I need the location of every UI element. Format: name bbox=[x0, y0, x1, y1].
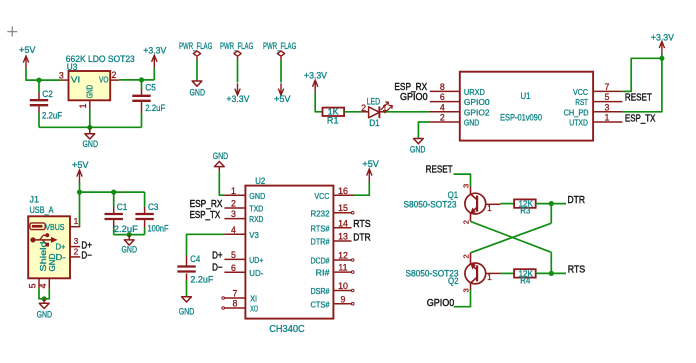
U2 pin 8 (XO) bbox=[222, 307, 225, 310]
U1 pin 5 (RST) bbox=[593, 101, 622, 103]
svg-text:V3: V3 bbox=[249, 230, 259, 240]
wire Q2 collector to GPIO0 bbox=[454, 290, 471, 307]
wire R4 to RTS bbox=[536, 272, 566, 274]
svg-text:USB_A: USB_A bbox=[30, 205, 54, 215]
J1 pin 3 (D+) bbox=[70, 246, 80, 248]
svg-text:11: 11 bbox=[338, 263, 347, 273]
wire Q1 emitter diagonal to RTS bbox=[471, 221, 552, 252]
ground symbol (J1) bbox=[43, 299, 45, 304]
svg-text:15: 15 bbox=[338, 203, 348, 213]
svg-text:5: 5 bbox=[28, 283, 38, 288]
capacitor C4 bbox=[186, 255, 188, 265]
svg-text:GND: GND bbox=[249, 191, 265, 201]
svg-text:D-: D- bbox=[56, 252, 66, 262]
svg-text:9: 9 bbox=[341, 294, 346, 304]
node C5 junction bbox=[139, 77, 144, 82]
node +3.3V junction (U1) bbox=[659, 56, 664, 61]
connector J1 body bbox=[28, 216, 70, 278]
wire GND to U2 pin1 bbox=[219, 172, 224, 196]
wire DTR to cross bbox=[550, 204, 552, 224]
LED D1 emission arrows bbox=[381, 102, 392, 113]
ground symbol (LDO) bbox=[89, 127, 91, 134]
power flag PF3 symbol bbox=[277, 51, 284, 56]
svg-text:XO: XO bbox=[250, 304, 258, 314]
svg-text:100nF: 100nF bbox=[148, 224, 169, 234]
svg-text:3: 3 bbox=[605, 102, 610, 112]
wire C5 top bbox=[141, 80, 143, 89]
svg-text:RTS#: RTS# bbox=[311, 223, 330, 233]
svg-text:D1: D1 bbox=[369, 118, 380, 128]
U2 pin 11 (RI#) bbox=[333, 271, 351, 273]
svg-text:C3: C3 bbox=[148, 202, 159, 212]
wire PF1 to GND bbox=[196, 60, 198, 82]
svg-text:UTXD: UTXD bbox=[569, 118, 588, 128]
svg-text:GND: GND bbox=[37, 309, 53, 319]
wire J1 pins to ground bbox=[39, 289, 49, 299]
U1 pin 2 (GND) bbox=[429, 121, 460, 123]
wire VCC to +5V bbox=[354, 182, 369, 196]
power symbol +5V (U2) bbox=[367, 169, 372, 182]
svg-text:CH340C: CH340C bbox=[269, 323, 305, 335]
svg-text:D−: D− bbox=[81, 251, 92, 262]
U3 pin 1 (GND) bbox=[89, 100, 91, 109]
svg-text:URXD: URXD bbox=[464, 87, 485, 97]
svg-text:GPIO0: GPIO0 bbox=[464, 97, 490, 107]
wire caps ground rail bbox=[114, 234, 145, 236]
U2 pin 10 (DSR#) bbox=[333, 290, 351, 292]
svg-text:2: 2 bbox=[111, 70, 116, 80]
svg-text:S8050-SOT23: S8050-SOT23 bbox=[404, 200, 457, 210]
wire C1 top bbox=[113, 192, 115, 207]
svg-text:DTR: DTR bbox=[568, 195, 586, 206]
svg-text:6: 6 bbox=[440, 92, 445, 102]
svg-text:1: 1 bbox=[74, 217, 79, 226]
wire cross diagonal to Q2 emitter bbox=[471, 223, 552, 253]
svg-text:GND: GND bbox=[179, 306, 195, 316]
svg-text:5: 5 bbox=[605, 92, 610, 102]
D1 pin 1 (cathode) bbox=[379, 111, 386, 113]
svg-text:VI: VI bbox=[71, 75, 81, 85]
U2 pin 15 (R232) bbox=[333, 212, 351, 214]
node ground rail junction bbox=[87, 125, 92, 130]
wire R1 to D1 bbox=[344, 111, 362, 113]
U2 pin 16 (VCC) bbox=[333, 194, 354, 196]
svg-text:2: 2 bbox=[361, 103, 366, 113]
capacitor C1 bbox=[113, 207, 115, 213]
wire C2 top bbox=[38, 80, 40, 93]
power symbol +3.3V (LED) bbox=[313, 80, 318, 93]
svg-text:+3.3V: +3.3V bbox=[304, 71, 327, 81]
svg-text:RTS: RTS bbox=[353, 219, 371, 230]
svg-text:LED: LED bbox=[367, 97, 381, 107]
svg-text:10: 10 bbox=[338, 281, 348, 291]
resistor R4 bbox=[514, 269, 536, 277]
svg-text:+3.3V: +3.3V bbox=[143, 46, 166, 56]
svg-text:+5V: +5V bbox=[274, 94, 291, 104]
svg-text:4: 4 bbox=[38, 283, 48, 288]
U1 pin 6 (GPIO0) bbox=[430, 101, 460, 103]
U2 pin 14 (RTS#) bbox=[333, 227, 351, 229]
svg-text:XI: XI bbox=[250, 294, 257, 304]
wire CH_PD to +3.3V bbox=[622, 58, 662, 112]
svg-text:DSR#: DSR# bbox=[311, 286, 330, 296]
U2 pin 7 (XI) bbox=[222, 297, 225, 300]
ground symbol (U1) bbox=[414, 139, 424, 144]
ground symbol (caps) bbox=[128, 235, 130, 240]
svg-text:CH_PD: CH_PD bbox=[564, 107, 589, 117]
svg-text:U1: U1 bbox=[521, 91, 531, 101]
power flag PF2 symbol bbox=[234, 51, 241, 56]
svg-text:+3.3V: +3.3V bbox=[651, 32, 674, 42]
node DTR junction bbox=[549, 201, 554, 206]
svg-text:C5: C5 bbox=[145, 83, 156, 93]
node J1 ground junction bbox=[42, 296, 47, 301]
capacitor C3 bbox=[144, 207, 146, 213]
wire C3 bottom bbox=[144, 228, 146, 235]
svg-text:13: 13 bbox=[338, 232, 348, 242]
LED D1 cathode bar bbox=[378, 106, 380, 118]
svg-text:U2: U2 bbox=[255, 176, 265, 186]
wire +5V to rail bbox=[26, 69, 61, 81]
svg-text:ESP-01v090: ESP-01v090 bbox=[500, 112, 542, 122]
svg-text:RST: RST bbox=[575, 97, 588, 107]
svg-text:D−: D− bbox=[212, 262, 223, 273]
U2 pin 13 (DTR#) bbox=[333, 240, 351, 242]
svg-text:GND: GND bbox=[84, 85, 94, 99]
svg-text:PWR_FLAG: PWR_FLAG bbox=[220, 41, 253, 51]
svg-text:1: 1 bbox=[487, 204, 492, 213]
wire U3 pin1 to ground rail bbox=[89, 110, 91, 128]
wire cross to RTS junction bbox=[550, 252, 552, 273]
wire C3 top bbox=[144, 192, 146, 207]
svg-text:+5V: +5V bbox=[19, 45, 36, 55]
svg-text:3: 3 bbox=[462, 288, 471, 292]
svg-text:RI#: RI# bbox=[316, 268, 330, 278]
svg-text:DTR: DTR bbox=[353, 232, 371, 243]
svg-text:GND: GND bbox=[410, 144, 426, 154]
LED D1 triangle bbox=[369, 107, 380, 118]
svg-text:12: 12 bbox=[338, 251, 348, 261]
svg-text:2: 2 bbox=[462, 254, 471, 258]
wire C5 bottom bbox=[141, 113, 143, 127]
wire C4 to ground bbox=[186, 281, 188, 297]
svg-text:GND: GND bbox=[213, 151, 229, 161]
svg-text:VCC: VCC bbox=[573, 87, 588, 97]
svg-text:1: 1 bbox=[487, 273, 492, 282]
svg-text:R4: R4 bbox=[520, 276, 530, 286]
wire RESET to Q1 collector bbox=[454, 174, 471, 186]
J1 USB receptacle icon bbox=[30, 223, 45, 230]
node RTS junction bbox=[549, 271, 554, 276]
U1 pin 3 (CH_PD) bbox=[593, 111, 622, 113]
transistor Q2 bbox=[465, 263, 486, 284]
U1 pin 1 (UTXD) bbox=[593, 121, 622, 123]
svg-text:CTS#: CTS# bbox=[311, 299, 330, 309]
node C1 junction bbox=[111, 190, 116, 195]
wire VO to +3.3V bbox=[119, 79, 154, 81]
ground symbol (C4) bbox=[182, 297, 192, 302]
U1 pin 7 (VCC) bbox=[593, 90, 622, 92]
svg-text:R232: R232 bbox=[311, 208, 330, 218]
svg-text:7: 7 bbox=[605, 82, 610, 92]
svg-text:GND: GND bbox=[47, 254, 57, 272]
U2 pin 6 (UD-) bbox=[224, 271, 245, 273]
power flag PF1 symbol bbox=[193, 51, 200, 56]
svg-text:1: 1 bbox=[231, 186, 236, 196]
svg-text:TXD: TXD bbox=[249, 204, 263, 214]
U2 pin 3 (RXD) bbox=[224, 218, 245, 220]
sheet origin marker bbox=[7, 31, 17, 33]
U3 pin 3 (VI) bbox=[61, 79, 69, 81]
svg-text:UD-: UD- bbox=[249, 268, 263, 278]
node C2/+5V junction bbox=[36, 78, 41, 83]
svg-text:14: 14 bbox=[338, 218, 348, 228]
svg-text:16: 16 bbox=[338, 186, 348, 196]
capacitor C2 bbox=[38, 93, 40, 99]
ground symbol (PF1) bbox=[192, 81, 202, 86]
wire +3.3V to R1 bbox=[315, 93, 322, 112]
svg-text:5: 5 bbox=[231, 250, 236, 260]
svg-text:3: 3 bbox=[74, 237, 79, 246]
svg-text:2: 2 bbox=[231, 199, 236, 209]
svg-text:C1: C1 bbox=[117, 202, 128, 212]
power symbol +3.3V (down, PF2) bbox=[235, 83, 240, 95]
wire PF3 to +5V bbox=[280, 60, 282, 83]
J1 pin 5 (Shield) bbox=[38, 278, 40, 289]
svg-text:D+: D+ bbox=[56, 242, 66, 252]
svg-text:GND: GND bbox=[83, 139, 99, 149]
wire +5V rail to caps bbox=[80, 191, 145, 193]
J1 pin 4 (GND) bbox=[48, 278, 50, 289]
D1 pin 2 (anode) bbox=[362, 111, 369, 113]
svg-text:2.2uF: 2.2uF bbox=[42, 111, 62, 121]
resistor R3 bbox=[514, 199, 536, 207]
resistor R1 bbox=[323, 108, 345, 116]
node caps ground junction bbox=[127, 232, 132, 237]
U2 pin 5 (UD+) bbox=[224, 258, 245, 260]
wire V3 to C4 bbox=[187, 234, 225, 255]
svg-text:VO: VO bbox=[99, 75, 109, 85]
wire U1 GND pin bbox=[418, 122, 429, 139]
svg-text:2.2uF: 2.2uF bbox=[114, 224, 139, 234]
svg-text:Q2: Q2 bbox=[448, 276, 459, 286]
wire PF2 to +3.3V bbox=[237, 60, 239, 83]
svg-text:DTR#: DTR# bbox=[311, 237, 330, 247]
svg-text:R1: R1 bbox=[327, 116, 339, 126]
transistor Q1 bbox=[465, 193, 486, 214]
svg-text:UD+: UD+ bbox=[249, 255, 263, 265]
U2 pin 4 (V3) bbox=[224, 233, 245, 235]
U1 pin 4 (GPIO2) bbox=[429, 111, 460, 113]
svg-text:2: 2 bbox=[440, 113, 445, 123]
svg-text:1: 1 bbox=[605, 113, 610, 123]
U2 pin 9 (CTS#) bbox=[333, 303, 351, 305]
svg-text:GPIO0: GPIO0 bbox=[427, 298, 455, 309]
Q1 pin 1 (base) bbox=[486, 203, 501, 205]
J1 USB trident icon bbox=[30, 237, 35, 242]
svg-text:ESP_TX: ESP_TX bbox=[625, 113, 656, 124]
svg-text:2.2uF: 2.2uF bbox=[190, 274, 214, 284]
power symbol +3.3V (LDO output) bbox=[152, 55, 157, 68]
svg-text:GPIO2: GPIO2 bbox=[464, 107, 490, 117]
svg-text:+5V: +5V bbox=[72, 160, 89, 170]
svg-text:RTS: RTS bbox=[568, 265, 586, 276]
svg-text:J1: J1 bbox=[30, 194, 40, 204]
wire Q1 base to R3 bbox=[501, 203, 515, 205]
wire VCC to +3.3V bbox=[622, 58, 662, 91]
svg-text:VBUS: VBUS bbox=[45, 222, 64, 232]
U3 pin 2 (VO) bbox=[110, 79, 119, 81]
svg-text:3: 3 bbox=[231, 209, 236, 219]
svg-text:ESP_TX: ESP_TX bbox=[190, 210, 221, 221]
node +5V junction (USB) bbox=[77, 190, 82, 195]
U1 pin 8 (URXD) bbox=[430, 90, 460, 92]
component U2 body bbox=[245, 186, 333, 319]
U2 pin 12 (DCD#) bbox=[333, 259, 351, 261]
U2 pin 2 (TXD) bbox=[224, 207, 245, 209]
svg-text:DCD#: DCD# bbox=[311, 256, 330, 266]
svg-text:PWR_FLAG: PWR_FLAG bbox=[179, 41, 212, 51]
svg-text:RESET: RESET bbox=[426, 165, 453, 176]
svg-text:7: 7 bbox=[233, 289, 238, 299]
ground rail wire (LDO) bbox=[39, 126, 142, 128]
svg-text:ESP_RX: ESP_RX bbox=[190, 199, 223, 210]
svg-text:8: 8 bbox=[233, 299, 238, 309]
svg-text:4: 4 bbox=[440, 102, 445, 112]
svg-text:RESET: RESET bbox=[625, 93, 652, 104]
svg-text:C4: C4 bbox=[190, 254, 200, 264]
power symbol +5V (down, PF3) bbox=[278, 83, 283, 95]
svg-text:8: 8 bbox=[440, 82, 445, 92]
svg-text:+5V: +5V bbox=[362, 159, 379, 169]
svg-text:GND: GND bbox=[190, 88, 206, 98]
component U1 body bbox=[460, 72, 593, 141]
power symbol +3.3V (U1) bbox=[659, 42, 664, 55]
capacitor C5 bbox=[141, 89, 143, 95]
svg-text:VCC: VCC bbox=[314, 191, 329, 201]
regulator U3 body bbox=[69, 71, 111, 100]
svg-text:4: 4 bbox=[231, 225, 236, 235]
svg-text:2: 2 bbox=[74, 247, 79, 256]
svg-text:D+: D+ bbox=[212, 251, 223, 262]
svg-text:2.2uF: 2.2uF bbox=[145, 103, 165, 113]
svg-text:RXD: RXD bbox=[249, 214, 263, 224]
svg-text:GPIO0: GPIO0 bbox=[400, 92, 428, 103]
svg-text:3: 3 bbox=[462, 184, 471, 188]
svg-text:GND: GND bbox=[122, 245, 138, 255]
svg-text:PWR_FLAG: PWR_FLAG bbox=[263, 41, 296, 51]
wire +5V to VBUS bbox=[79, 183, 81, 227]
wire D1 to GPIO2 bbox=[386, 111, 429, 113]
Q2 pin 1 (base) bbox=[486, 272, 501, 274]
svg-text:C2: C2 bbox=[42, 89, 53, 99]
J1 pin 2 (D-) bbox=[70, 256, 80, 258]
svg-text:1: 1 bbox=[78, 103, 88, 108]
power symbol +5V (LDO input) bbox=[23, 56, 28, 69]
wire Q2 base to R4 bbox=[501, 272, 515, 274]
J1 pin 1 (VBUS) bbox=[70, 226, 80, 228]
svg-text:R3: R3 bbox=[520, 206, 530, 216]
svg-text:2: 2 bbox=[462, 220, 471, 224]
svg-text:+3.3V: +3.3V bbox=[226, 94, 249, 104]
U2 pin 1 (GND) bbox=[224, 194, 245, 196]
power symbol +5V (USB) bbox=[77, 170, 82, 183]
svg-text:GND: GND bbox=[464, 118, 479, 128]
svg-text:6: 6 bbox=[231, 263, 236, 273]
wire C1 bottom bbox=[113, 228, 115, 235]
svg-text:3: 3 bbox=[59, 71, 64, 81]
wire C2 bottom bbox=[38, 113, 40, 127]
wire R3 to DTR bbox=[536, 203, 566, 205]
